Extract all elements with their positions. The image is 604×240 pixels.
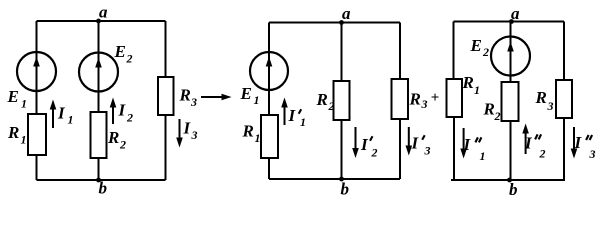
svg-text:2: 2	[328, 99, 335, 113]
current arrow I'2 (circuit 2)	[355, 127, 357, 149]
svg-text:E: E	[240, 84, 252, 103]
resistor R2 (circuit 3)	[502, 82, 519, 121]
resistor R2 (circuit 2)	[334, 81, 350, 120]
source E1 arrow	[36, 66, 38, 91]
circuit 2: bottom wire b	[269, 178, 400, 180]
current arrow I''3 (circuit 3)	[573, 127, 575, 150]
current arrow I2 (circuit 1)	[112, 106, 114, 124]
wire middle branch circuit 2	[341, 23, 343, 180]
node b junction dot (circuit 2)	[339, 177, 344, 182]
equivalence arrow between circuit 1 and circuit 2	[201, 96, 223, 98]
svg-text:I: I	[524, 134, 533, 153]
resistor R3 (circuit 1)	[158, 77, 174, 115]
svg-text:I: I	[463, 135, 472, 154]
resistor R2 (circuit 1)	[91, 112, 107, 158]
svg-text:I: I	[183, 119, 192, 138]
node a junction dot (circuit 2)	[339, 20, 344, 25]
svg-text:3: 3	[589, 147, 596, 161]
svg-text:2: 2	[126, 111, 133, 125]
svg-text:R: R	[316, 90, 328, 109]
svg-text:R: R	[409, 90, 421, 109]
svg-text:1: 1	[474, 83, 480, 97]
svg-text:R: R	[179, 86, 191, 105]
svg-text:2: 2	[482, 45, 489, 59]
svg-text:R: R	[242, 122, 254, 141]
svg-text:2: 2	[126, 52, 133, 66]
current arrow I'3 (circuit 2)	[408, 127, 410, 147]
svg-text:b: b	[341, 180, 350, 199]
svg-text:a: a	[511, 4, 520, 23]
source E2 circle (circuit 3)	[491, 37, 530, 76]
svg-text:2: 2	[539, 147, 546, 161]
svg-text:I: I	[288, 106, 297, 125]
circuit 3: bottom wire b	[451, 179, 565, 181]
node a junction dot (circuit 3)	[509, 19, 514, 24]
circuit 3: top wire a	[454, 21, 565, 23]
wire right branch circuit 2	[399, 23, 401, 180]
wire left branch circuit 2	[268, 23, 270, 180]
current arrow I'1 (circuit 2)	[284, 106, 286, 125]
resistor R1 (circuit 2)	[261, 115, 278, 158]
svg-text:2: 2	[119, 138, 126, 152]
source E1 circle (circuit 1)	[17, 52, 56, 91]
svg-text:1: 1	[254, 93, 260, 107]
source E2 arrow	[95, 58, 102, 68]
svg-text:I: I	[360, 135, 369, 154]
wire right branch circuit 3	[563, 22, 565, 181]
source E2 circle (circuit 1)	[79, 53, 118, 92]
svg-text:I: I	[57, 104, 66, 123]
svg-text:3: 3	[421, 97, 428, 111]
source E1 circle (circuit 2)	[250, 52, 288, 90]
svg-text:3: 3	[191, 128, 198, 142]
node a junction dot (circuit 1)	[96, 19, 101, 24]
current arrow I''1 (circuit 3)	[463, 128, 465, 150]
svg-text:3: 3	[190, 95, 197, 109]
svg-text:a: a	[99, 3, 108, 22]
node b junction dot (circuit 1)	[96, 178, 101, 183]
svg-text:1: 1	[480, 149, 486, 163]
wire right branch circuit 1	[165, 21, 167, 180]
svg-text:2: 2	[371, 146, 378, 160]
source E2 arrow (circuit 3)	[510, 51, 512, 74]
svg-text:3: 3	[547, 99, 554, 113]
wire middle branch circuit 3	[510, 22, 512, 181]
current arrow I3 (circuit 1)	[179, 119, 181, 138]
svg-text:R: R	[462, 73, 474, 92]
svg-text:a: a	[342, 4, 351, 23]
source E1 arrow (circuit 2)	[266, 57, 273, 67]
svg-text:1: 1	[300, 115, 306, 129]
resistor R1 (circuit 3)	[447, 79, 463, 117]
resistor R3 (circuit 2)	[392, 79, 409, 119]
svg-text:3: 3	[424, 144, 431, 158]
svg-text:I: I	[118, 101, 127, 120]
svg-text:2: 2	[494, 109, 501, 123]
svg-text:1: 1	[21, 133, 27, 147]
wire left branch circuit 3	[453, 22, 456, 181]
svg-text:E: E	[7, 87, 19, 106]
node b junction dot (circuit 3)	[507, 178, 512, 183]
svg-text:1: 1	[255, 131, 261, 145]
svg-text:b: b	[509, 180, 518, 199]
circuit 1: bottom wire b	[37, 179, 166, 181]
svg-text:R: R	[107, 128, 119, 147]
svg-text:E: E	[470, 36, 482, 55]
wire left branch circuit 1	[36, 21, 38, 180]
wire middle branch circuit 1	[98, 21, 100, 180]
svg-text:1: 1	[21, 97, 27, 111]
resistor R1 (circuit 1)	[28, 114, 46, 155]
svg-text:I: I	[411, 134, 420, 153]
svg-text:1: 1	[68, 113, 74, 127]
svg-text:E: E	[114, 42, 126, 61]
circuit 1: top wire a	[37, 20, 166, 22]
svg-text:+: +	[431, 90, 440, 106]
resistor R3 (circuit 3)	[556, 80, 572, 118]
svg-text:b: b	[99, 179, 108, 198]
circuit 2: top wire a	[269, 22, 400, 24]
current arrow I''2 (circuit 3)	[525, 133, 527, 154]
svg-text:I: I	[574, 133, 583, 152]
svg-text:R: R	[535, 88, 547, 107]
svg-text:R: R	[483, 100, 495, 119]
svg-text:R: R	[7, 123, 19, 142]
current arrow I1 (circuit 1)	[52, 108, 54, 128]
